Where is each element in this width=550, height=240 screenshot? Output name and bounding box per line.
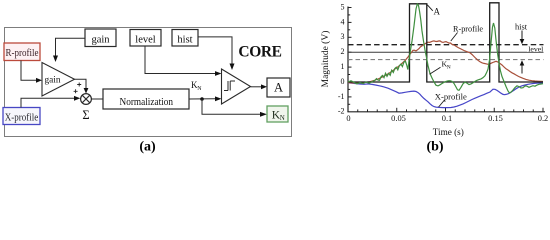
arrow level up	[521, 65, 523, 74]
svg-text:2: 2	[341, 47, 345, 56]
wire hist to comparator	[198, 37, 232, 64]
level solid line	[348, 51, 544, 53]
x axis	[347, 111, 545, 113]
wire gain box to gain amp	[56, 38, 86, 55]
block hist	[172, 30, 198, 47]
svg-text:0.2: 0.2	[538, 114, 548, 123]
x ticks	[348, 108, 543, 112]
svg-text:0: 0	[341, 77, 345, 86]
svg-text:N: N	[280, 114, 285, 122]
y major ticks	[348, 8, 352, 105]
svg-text:1: 1	[341, 62, 345, 71]
svg-text:(a): (a)	[139, 140, 156, 155]
svg-text:level: level	[528, 45, 544, 54]
svg-text:A: A	[434, 7, 441, 17]
plus sign left input	[74, 89, 78, 93]
svg-text:0: 0	[346, 114, 350, 123]
svg-text:gain: gain	[91, 35, 110, 46]
plus sign top input	[77, 83, 81, 87]
svg-text:gain: gain	[45, 75, 61, 85]
svg-text:hist: hist	[177, 35, 192, 46]
block KN output	[267, 106, 288, 122]
svg-text:A: A	[274, 81, 283, 95]
svg-text:level: level	[135, 35, 155, 46]
svg-text:R-profile: R-profile	[453, 25, 483, 34]
svg-text:5: 5	[341, 2, 345, 11]
svg-text:(b): (b)	[426, 140, 443, 155]
block level	[130, 30, 161, 47]
curve A square wave (black)	[348, 3, 543, 82]
curve R-profile (red)	[348, 41, 543, 83]
svg-text:N: N	[447, 64, 451, 70]
block A	[267, 78, 290, 97]
svg-text:Magnitude (V): Magnitude (V)	[320, 31, 331, 88]
wire level to comparator	[145, 46, 215, 74]
svg-text:4: 4	[341, 17, 345, 26]
outer frame	[5, 28, 292, 137]
svg-text:0.15: 0.15	[488, 114, 503, 123]
wire amp to multiplier	[75, 79, 87, 88]
wire X-profile to multiplier	[21, 98, 74, 107]
block R-profile	[4, 43, 40, 61]
wire multiplier to Normalization	[91, 98, 103, 100]
svg-text:CORE: CORE	[238, 44, 281, 61]
wire KN node to KN box	[202, 99, 260, 114]
x labels	[346, 114, 548, 123]
curve X-profile (blue)	[348, 83, 543, 108]
y labels	[338, 2, 345, 115]
amplifier gain triangle	[42, 63, 75, 97]
svg-text:X-profile: X-profile	[5, 112, 39, 123]
hysteresis symbol	[224, 81, 235, 91]
hist band upper dashed line	[348, 44, 544, 46]
svg-text:R-profile: R-profile	[6, 48, 40, 59]
hist band lower dashed line	[348, 59, 544, 61]
wire comparator to A box	[251, 86, 262, 88]
svg-text:0.05: 0.05	[391, 114, 406, 123]
arrow hist down	[521, 31, 523, 40]
wire Normalization to comparator	[189, 98, 215, 100]
svg-text:X-profile: X-profile	[435, 92, 467, 102]
block gain	[85, 29, 116, 47]
svg-text:0.1: 0.1	[442, 114, 452, 123]
svg-text:Normalization: Normalization	[120, 97, 174, 108]
comparator U1	[222, 69, 251, 104]
curve KN (green)	[348, 4, 543, 93]
svg-text:-1: -1	[338, 92, 345, 101]
label A with leader	[427, 5, 433, 11]
node KN junction	[200, 97, 204, 101]
multiplier circle node	[81, 94, 92, 105]
svg-text:3: 3	[341, 32, 345, 41]
svg-text:-2: -2	[338, 107, 345, 116]
wire R-profile to gain amp	[21, 61, 36, 81]
svg-text:hist: hist	[515, 23, 528, 32]
svg-text:Time (s): Time (s)	[433, 127, 464, 137]
svg-text:Σ: Σ	[82, 108, 89, 122]
block X-profile	[3, 108, 40, 125]
svg-text:N: N	[197, 86, 202, 92]
block Normalization	[103, 89, 189, 109]
y axis	[347, 7, 349, 112]
label level	[527, 45, 544, 51]
